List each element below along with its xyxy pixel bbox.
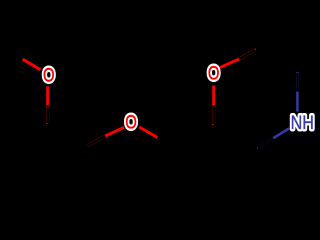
bond C_a-O2 (O half red toward O2) xyxy=(88,127,125,145)
bond N4-C5 (N half blue) xyxy=(257,128,289,148)
svg-text:O: O xyxy=(125,113,137,134)
bond C5-C6 (ring bottom-left, black) xyxy=(214,125,257,148)
atom O1 label (methoxy oxygen) xyxy=(43,65,55,86)
bond C_m-O1 (methyl to O1, carbon half black over red) xyxy=(5,48,41,69)
svg-text:O: O xyxy=(208,64,220,85)
bond C6-O3 (ring left edge, O half red) xyxy=(212,86,215,126)
bond C2-C3r (ring top-right, black) xyxy=(256,50,298,73)
bond O1-C3c (vertical, O half red) xyxy=(46,86,49,124)
bond C3r-N4 (ring right edge, N half blue) xyxy=(296,72,299,112)
bond C3c-C_a (black) xyxy=(48,124,88,146)
bond O3-C2 (ring top-left, O half red) xyxy=(220,50,256,68)
svg-text:O: O xyxy=(43,65,55,86)
bond C_b-C6 (black) xyxy=(176,125,214,148)
atom N4 label NH (ring nitrogen) xyxy=(291,113,314,134)
atom O2 label (chain ether oxygen) xyxy=(125,113,137,134)
atom O3 label (ring oxygen) xyxy=(208,64,220,85)
bond O2-C_b (O half red) xyxy=(139,127,175,148)
svg-text:NH: NH xyxy=(291,113,314,134)
